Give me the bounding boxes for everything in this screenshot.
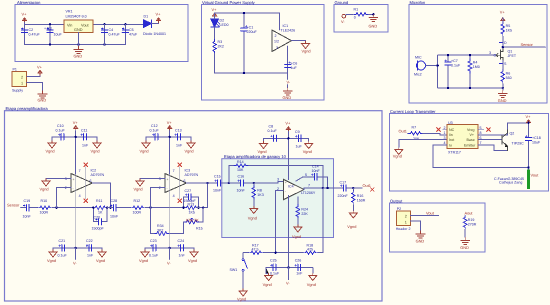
svg-text:TLE2426: TLE2426: [281, 29, 296, 33]
no-connect X below IC2: [84, 199, 88, 203]
svg-text:Vout: Vout: [426, 211, 435, 216]
annotation author text: [494, 177, 524, 184]
no-connect X above IC2: [84, 163, 88, 199]
svg-text:C4: C4: [109, 28, 114, 32]
resistor R8 to Vgnd: [248, 183, 264, 221]
svg-text:+C18: +C18: [532, 136, 541, 140]
capacitor C9: [295, 130, 304, 149]
net flag Vgnd below C24: [188, 248, 198, 263]
resistor R4: [468, 55, 480, 88]
svg-text:10uF: 10uF: [532, 141, 541, 145]
svg-text:C11: C11: [81, 129, 87, 133]
wire VR1 GND pin: [78, 33, 80, 47]
svg-text:1nF: 1nF: [296, 272, 303, 276]
net flag Vgnd to U3 Iret: [393, 140, 447, 159]
svg-text:Vout: Vout: [81, 24, 90, 28]
svg-text:R13: R13: [188, 202, 195, 206]
svg-text:R15: R15: [196, 227, 203, 231]
svg-text:C26: C26: [295, 259, 302, 263]
wire R10 to R11 with inverting tap: [52, 207, 93, 209]
wire R13 to output riser: [196, 183, 208, 208]
svg-text:Vgnd: Vgnd: [248, 216, 257, 221]
svg-text:1nF: 1nF: [179, 254, 186, 258]
svg-text:+: +: [44, 27, 46, 31]
capacitor C8: [268, 125, 280, 142]
diode D1 1N4001: [143, 15, 166, 37]
wire R3 to bottom bus: [215, 54, 288, 74]
net label V- stage2: [167, 248, 171, 266]
svg-text:VR1: VR1: [66, 10, 73, 14]
svg-text:0.47uF: 0.47uF: [109, 33, 121, 37]
switch SW1: [230, 253, 248, 302]
svg-text:-: -: [285, 189, 286, 193]
svg-text:-: -: [73, 187, 74, 191]
ground GND below VR1: [74, 46, 84, 58]
svg-text:U3: U3: [448, 121, 453, 125]
wire IC3 pin4 down to bus: [169, 175, 171, 248]
V- bypass bus C25 C26: [266, 266, 313, 268]
svg-text:Sensor: Sensor: [521, 42, 534, 47]
svg-text:Iin: Iin: [449, 133, 453, 137]
svg-text:SW1: SW1: [230, 268, 238, 272]
capacitor C6: [285, 62, 298, 71]
resistor R11: [93, 199, 107, 215]
wire IC4 output line: [304, 188, 340, 190]
net label V- gain stage: [286, 267, 290, 285]
svg-text:0.1uF: 0.1uF: [56, 129, 66, 133]
svg-text:3: 3: [277, 178, 279, 182]
wire sensor to C19: [21, 207, 24, 209]
capacitor C27 loop above R13: [184, 189, 199, 208]
wire R19 to GND: [464, 229, 466, 237]
svg-text:Header 2: Header 2: [396, 227, 411, 231]
svg-text:1: 1: [405, 221, 407, 225]
resistor R13: [184, 202, 198, 214]
svg-text:C15: C15: [214, 175, 221, 179]
net flag Vgnd at IC3 pin3: [134, 179, 166, 192]
wire C19 to R10: [32, 207, 38, 209]
wire P2 pin2 to Vout: [410, 215, 438, 217]
svg-text:1nF: 1nF: [87, 254, 94, 258]
svg-text:Alimentacion: Alimentacion: [17, 0, 41, 5]
wire P1 pin2 to V+: [27, 75, 40, 77]
svg-text:IC3: IC3: [185, 169, 191, 173]
capacitor C15: [213, 175, 224, 193]
svg-text:JFET: JFET: [508, 54, 517, 58]
bypass bus stage1 top: [52, 136, 97, 138]
connector P1 Supply: [12, 68, 27, 93]
svg-text:Io: Io: [449, 144, 452, 148]
svg-text:10nF: 10nF: [23, 215, 32, 219]
svg-text:GND: GND: [369, 24, 378, 29]
capacitor C25: [270, 259, 280, 276]
svg-text:2: 2: [405, 215, 407, 219]
net flag Vgnd below C8: [258, 138, 268, 154]
power flag V+ gain stage: [285, 121, 291, 132]
svg-text:0.1uF: 0.1uF: [268, 129, 278, 133]
svg-text:V+: V+: [156, 12, 162, 17]
op-amp IC3 AD797N: [159, 169, 199, 198]
svg-text:Current Loop Transmitter: Current Loop Transmitter: [390, 109, 436, 114]
capacitor C24: [178, 239, 187, 258]
svg-text:Vgnd: Vgnd: [258, 149, 267, 154]
wire U3 Emitter pin to Q2 emitter: [478, 145, 507, 151]
svg-text:10uF: 10uF: [54, 33, 63, 37]
resistor R24 below IC4: [292, 197, 308, 239]
svg-text:+: +: [285, 180, 287, 184]
wire V+ into bus and down to IC3 pin7: [169, 131, 171, 175]
svg-text:C21: C21: [59, 239, 66, 243]
power flag V+ stage1: [73, 120, 79, 131]
svg-text:P1: P1: [13, 68, 17, 72]
svg-text:Kbe 2K: Kbe 2K: [186, 218, 199, 223]
svg-text:Vgnd: Vgnd: [263, 282, 272, 287]
svg-text:Vgnd: Vgnd: [185, 149, 194, 154]
svg-text:C12: C12: [151, 124, 158, 128]
svg-text:GND: GND: [498, 98, 507, 103]
svg-text:10nF: 10nF: [213, 189, 222, 193]
wire IC2 pin4 down to bus: [75, 175, 77, 248]
svg-text:Vout: Vout: [531, 173, 540, 178]
wire R12 to R13: [145, 207, 187, 209]
ground GND: [283, 88, 293, 100]
svg-text:Vgnd: Vgnd: [302, 49, 311, 54]
wire drain to Sensor: [503, 46, 546, 48]
svg-text:Iret: Iret: [449, 138, 454, 142]
svg-text:Vgnd: Vgnd: [140, 149, 149, 154]
svg-text:Vin: Vin: [67, 24, 72, 28]
bypass bus stage2 bottom: [145, 247, 194, 249]
capacitor C5: [122, 24, 138, 44]
bus bar output highlight: [527, 170, 530, 190]
svg-text:C16: C16: [238, 175, 245, 179]
svg-text:C22: C22: [86, 239, 93, 243]
net label Out1 with no-ERC cross: [363, 183, 375, 191]
svg-text:GND: GND: [74, 54, 83, 59]
svg-text:AD797N: AD797N: [185, 173, 199, 177]
wire V+ to top bus: [214, 13, 216, 19]
svg-text:IC4: IC4: [288, 185, 294, 189]
svg-text:1M0: 1M0: [473, 65, 480, 69]
svg-text:4: 4: [79, 194, 81, 198]
svg-text:LT1206Y: LT1206Y: [301, 191, 316, 195]
capacitor C2: [21, 24, 40, 44]
wire V- to R1: [346, 13, 354, 16]
section box Etapa preamplificadora: [5, 106, 383, 301]
svg-text:560: 560: [506, 76, 512, 80]
svg-text:C20: C20: [94, 215, 101, 219]
svg-text:V+: V+: [470, 133, 475, 137]
svg-text:Vgnd: Vgnd: [393, 154, 402, 159]
transistor Q1 JFET: [496, 49, 517, 61]
svg-text:Vgnd: Vgnd: [40, 187, 49, 192]
capacitor C10: [56, 124, 68, 140]
net flag Vgnd below C23: [139, 248, 149, 263]
bypass bus stage1 bottom: [53, 247, 102, 249]
svg-text:Supply: Supply: [12, 89, 23, 93]
wire top bus to opamp: [215, 13, 280, 30]
svg-text:R10: R10: [41, 199, 48, 203]
svg-text:R1: R1: [354, 8, 359, 12]
wire R1 to GND: [368, 13, 373, 15]
net flag Vgnd below C26: [307, 267, 317, 287]
svg-text:Aout: Aout: [465, 211, 474, 216]
svg-text:10nF: 10nF: [237, 189, 246, 193]
wire V+ to R5: [502, 18, 504, 25]
svg-text:GND: GND: [38, 98, 47, 103]
svg-text:1: 1: [21, 81, 23, 85]
wire U3 Base pin to Q2 base: [478, 139, 502, 141]
svg-text:C17: C17: [340, 180, 347, 184]
net flag Vgnd below C11: [91, 137, 102, 154]
svg-text:LED0: LED0: [220, 23, 229, 27]
svg-text:Sensor: Sensor: [7, 203, 20, 208]
net label V- stage1: [73, 248, 77, 266]
svg-text:Microfon: Microfon: [410, 0, 426, 5]
net flag Vgnd below C10: [46, 137, 57, 154]
capacitor C12: [150, 124, 162, 140]
svg-text:1500pF: 1500pF: [184, 199, 197, 203]
net flag Vgnd below C12: [140, 137, 151, 154]
svg-text:V+: V+: [285, 121, 291, 126]
resistor R16 below Out1 line: [347, 188, 365, 229]
svg-text:R7: R7: [412, 126, 417, 130]
svg-text:220uF: 220uF: [247, 30, 258, 34]
net flag Vgnd at IC2 pin3: [40, 179, 72, 192]
net flag Vgnd below C9: [303, 138, 313, 154]
wire Out1 to R7: [408, 132, 410, 134]
section box Current Loop Transmitter: [390, 109, 549, 191]
svg-text:4: 4: [173, 194, 175, 198]
svg-text:Vgnd: Vgnd: [303, 149, 312, 154]
wire source to R6: [502, 61, 504, 72]
svg-text:100R: 100R: [133, 211, 142, 215]
net flag Vgnd below C22: [96, 248, 106, 263]
power flag V+ loop: [526, 114, 532, 125]
section box Etapa amplificadora de ganancia 10: [222, 154, 334, 238]
svg-text:1K: 1K: [98, 211, 103, 215]
resistor R34: [155, 232, 169, 236]
microphone MIC Mic2: [414, 56, 426, 77]
svg-text:22K: 22K: [301, 212, 308, 216]
svg-text:G: G: [494, 54, 497, 58]
wire C28 to R12: [119, 207, 131, 209]
wire tap up to IC3 pin2: [151, 188, 166, 208]
svg-text:0.1uF: 0.1uF: [58, 254, 68, 258]
svg-text:Etapa amplificadora de ganacy: Etapa amplificadora de ganacy 10: [224, 154, 287, 159]
trimmer loop R34 R15 below: [151, 208, 204, 236]
svg-text:3: 3: [444, 136, 446, 140]
svg-text:2K2: 2K2: [218, 44, 224, 48]
wire diode to V+: [152, 23, 159, 24]
svg-text:+: +: [167, 178, 169, 182]
svg-text:R14: R14: [237, 160, 244, 164]
svg-text:C27: C27: [185, 189, 192, 193]
capacitor C28: [107, 199, 119, 219]
capacitor C3: [44, 24, 62, 44]
resistor R10: [38, 199, 52, 215]
wire C15 to C16: [224, 182, 238, 184]
resistor R1: [354, 8, 369, 20]
svg-text:C19: C19: [24, 199, 31, 203]
svg-text:Vgnd: Vgnd: [139, 258, 148, 263]
wire U3 Io pin loop bottom: [433, 145, 528, 168]
svg-text:1uF: 1uF: [296, 145, 303, 149]
wire IC4 pin2 from below: [276, 190, 284, 252]
power flag V+ stage2: [167, 120, 173, 131]
trimmer R15: [185, 220, 199, 224]
connector P2 Header 2: [396, 207, 411, 231]
svg-text:270R: 270R: [468, 222, 477, 226]
svg-text:0.47uF: 0.47uF: [29, 33, 41, 37]
svg-text:Vgnd: Vgnd: [91, 149, 100, 154]
wire tap up to IC2 pin2: [57, 188, 72, 208]
wire C16 to IC4 pin3: [247, 181, 284, 183]
capacitor C20 loop below R11: [92, 208, 108, 231]
svg-text:7: 7: [173, 169, 175, 173]
svg-text:7: 7: [308, 184, 310, 188]
capacitor C4: [101, 24, 120, 44]
net flag V-: [341, 14, 346, 24]
svg-text:1500pF: 1500pF: [92, 227, 105, 231]
svg-text:Vgnd: Vgnd: [188, 258, 197, 263]
svg-text:Base: Base: [467, 138, 475, 142]
svg-text:1K5: 1K5: [506, 28, 512, 32]
svg-text:C3: C3: [47, 27, 52, 31]
svg-text:Output: Output: [390, 199, 403, 204]
svg-text:C13: C13: [175, 129, 182, 133]
capacitor C14 comp loop: [296, 165, 328, 189]
svg-text:1K5: 1K5: [189, 211, 195, 215]
svg-text:1uF: 1uF: [291, 66, 298, 70]
net flag Vgnd below C13: [185, 137, 196, 154]
svg-text:Mic2: Mic2: [414, 73, 422, 77]
wire top bus left: [25, 23, 65, 25]
svg-text:R11: R11: [96, 199, 102, 203]
svg-text:Vgnd: Vgnd: [307, 282, 316, 287]
op-amp IC2 AD797N: [65, 169, 105, 198]
svg-text:Vgnd: Vgnd: [134, 187, 143, 192]
svg-text:V+: V+: [73, 120, 79, 125]
wire gate bus: [438, 54, 496, 56]
resistor R18: [304, 244, 318, 255]
svg-text:GND: GND: [416, 239, 425, 244]
svg-text:C2: C2: [29, 28, 34, 32]
wire V+ rail down through C18: [528, 123, 530, 170]
svg-text:Emitter: Emitter: [464, 144, 476, 148]
capacitor C23: [149, 239, 159, 258]
wire bottom bus: [25, 44, 126, 46]
wire V- to GND: [287, 85, 289, 89]
section box Alimentacion: [15, 0, 188, 62]
svg-text:IC1: IC1: [283, 24, 289, 28]
wire mic to node: [426, 55, 438, 88]
svg-text:Q2: Q2: [510, 132, 515, 136]
svg-text:D: D: [504, 41, 507, 45]
svg-text:AD797N: AD797N: [91, 173, 105, 177]
svg-text:3: 3: [489, 51, 491, 55]
IC U3 XTR117: [444, 121, 482, 155]
svg-text:R12: R12: [134, 199, 141, 203]
resistor R17: [249, 244, 263, 255]
svg-text:Vgnd: Vgnd: [292, 234, 301, 239]
wire U3 V+ pin to Q2 collector rail: [478, 123, 529, 135]
svg-text:1nF: 1nF: [82, 144, 89, 148]
power flag V+ at P1: [37, 65, 43, 76]
junction dots: [243, 12, 245, 14]
svg-text:C9: C9: [295, 130, 300, 134]
capacitor C26: [295, 259, 304, 276]
wire C17 to Out1: [349, 187, 362, 189]
svg-text:Vreg: Vreg: [467, 128, 474, 132]
no-connect X at U3 NC pin: [437, 128, 447, 132]
svg-text:NC: NC: [449, 128, 455, 132]
svg-text:V+: V+: [22, 12, 28, 17]
svg-text:C23: C23: [150, 239, 157, 243]
svg-text:150R: 150R: [357, 199, 366, 203]
svg-text:C10: C10: [57, 124, 64, 128]
svg-text:R8: R8: [257, 189, 262, 193]
svg-text:47.5: 47.5: [252, 248, 259, 252]
svg-text:C8: C8: [269, 125, 274, 129]
svg-text:GND: GND: [74, 28, 83, 32]
transistor Q2 TIP29C: [502, 129, 524, 151]
capacitor C16: [237, 175, 247, 193]
svg-text:Ground: Ground: [335, 0, 349, 5]
svg-text:6: 6: [90, 179, 92, 183]
wire C1 taps: [243, 13, 245, 73]
bypass bus stage2 top: [146, 136, 191, 138]
feedback bottom wire R17 R18: [243, 188, 323, 253]
capacitor C18: [525, 135, 541, 145]
svg-text:Etapa preamplificadora: Etapa preamplificadora: [6, 106, 49, 111]
svg-text:1: 1: [444, 131, 446, 135]
ground GND: [369, 14, 378, 28]
wire R5 to drain: [502, 36, 504, 49]
svg-text:V+: V+: [167, 120, 173, 125]
svg-text:47uF: 47uF: [129, 33, 138, 37]
ground GND below P1: [38, 91, 48, 103]
wire opamp bottom pin down: [287, 46, 289, 79]
svg-text:0.1uF: 0.1uF: [451, 63, 461, 67]
wire IC4 pin4 down to V- bus: [288, 196, 290, 268]
svg-text:Out1: Out1: [363, 183, 371, 188]
svg-text:+C1: +C1: [247, 25, 254, 29]
wire R6 to bottom bus: [502, 84, 504, 91]
wire LED to R3: [214, 27, 216, 40]
svg-text:10nF: 10nF: [312, 169, 321, 173]
svg-text:5: 5: [480, 126, 482, 130]
LED D2: [211, 19, 229, 28]
resistor R12: [131, 199, 145, 215]
bypass bus gain stage top: [264, 137, 309, 139]
section box Ground: [334, 0, 388, 32]
svg-text:Diode 1N4001: Diode 1N4001: [143, 32, 166, 36]
wire IC2 output down to line: [93, 183, 111, 208]
svg-text:+C7: +C7: [451, 59, 458, 63]
svg-text:0.1uF: 0.1uF: [150, 129, 160, 133]
svg-text:Vgnd: Vgnd: [347, 224, 356, 229]
svg-text:475: 475: [307, 248, 313, 252]
power flag V+ top: [500, 10, 506, 23]
regulator VR1 LM2940T-9.0: [64, 10, 93, 33]
svg-text:0: 0: [354, 16, 356, 20]
resistor R3: [213, 40, 224, 54]
svg-text:-: -: [167, 187, 168, 191]
pin label S: [500, 62, 508, 66]
wire top bus right: [93, 23, 144, 25]
resistor R6: [501, 70, 512, 84]
